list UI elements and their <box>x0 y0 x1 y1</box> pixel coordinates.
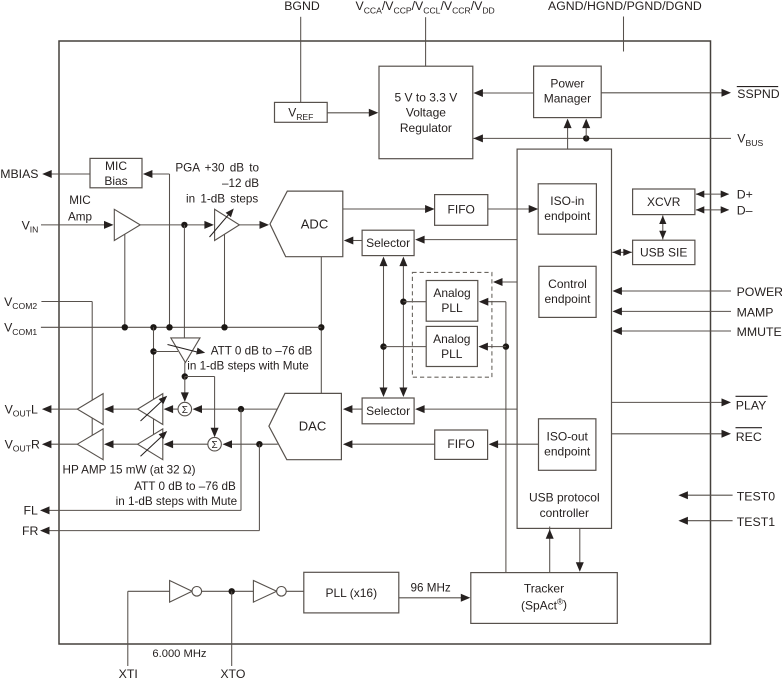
wire ATT bias branch <box>154 351 179 353</box>
wire FR <box>258 444 260 530</box>
block FIFO in <box>435 195 488 226</box>
wire MIC amp to PGA <box>140 224 206 226</box>
junction VCOM1 mic bias <box>166 324 172 330</box>
block MIC bias <box>90 158 142 187</box>
svg-text:ATT 0 dB to –76 dB: ATT 0 dB to –76 dB <box>211 344 313 357</box>
svg-text:Analog: Analog <box>433 286 470 300</box>
wire tracker clock vertical <box>505 302 507 573</box>
wire ATT amp L to HP amp L <box>113 408 138 410</box>
svg-text:ADC: ADC <box>301 217 328 232</box>
amplifier MIC amp <box>114 209 140 240</box>
wire ATT output <box>184 363 186 377</box>
svg-text:ATT 0 dB to –76 dB: ATT 0 dB to –76 dB <box>134 480 236 493</box>
wire sum L to ATT amp L <box>171 408 179 410</box>
converter DAC <box>269 393 342 459</box>
block selector upper <box>362 230 414 255</box>
svg-text:XCVR: XCVR <box>647 195 681 209</box>
wire link A to analog PLL lower <box>384 346 427 348</box>
wire selector link B <box>402 263 404 391</box>
amplifier PGA <box>215 209 240 240</box>
block analog PLL lower <box>426 326 477 366</box>
svg-text:controller: controller <box>540 506 589 520</box>
junction selector link A <box>380 343 386 349</box>
junction VCOM1 att bias <box>150 324 156 330</box>
svg-text:MIC: MIC <box>105 159 127 173</box>
svg-text:XTO: XTO <box>220 667 245 679</box>
svg-text:Selector: Selector <box>366 404 410 418</box>
wire AGND stub <box>623 17 625 52</box>
svg-text:in 1-dB steps with Mute: in 1-dB steps with Mute <box>187 360 308 373</box>
svg-text:5 V to 3.3 V: 5 V to 3.3 V <box>395 90 458 104</box>
attenuator ATT <box>171 338 200 363</box>
svg-text:Σ: Σ <box>212 440 218 451</box>
svg-text:PLL: PLL <box>441 347 463 361</box>
amplifier HP amp R <box>77 429 103 460</box>
wire MBIAS <box>50 173 90 175</box>
wire POWER <box>620 290 731 292</box>
svg-text:XTI: XTI <box>119 667 138 679</box>
wire PGA bias <box>224 230 226 327</box>
inverter 1 <box>170 581 193 603</box>
wire ATT amp R to HP amp R <box>113 443 138 445</box>
svg-text:FIFO: FIFO <box>448 202 475 216</box>
block XCVR <box>633 189 695 215</box>
junction VIN node <box>181 222 187 228</box>
wire selector link A <box>383 263 385 391</box>
wire VOUTL <box>49 408 78 410</box>
attenuator ATT amp R <box>138 429 163 460</box>
block USB SIE <box>633 240 695 264</box>
wire TEST1 <box>687 520 733 522</box>
svg-text:FIFO: FIFO <box>447 437 474 451</box>
wire BGND to VREF <box>300 17 302 103</box>
svg-text:USB SIE: USB SIE <box>640 246 687 260</box>
amplifier HP amp L <box>77 394 103 425</box>
wire power manager to regulator <box>481 92 534 94</box>
wire DAC out R <box>227 443 278 445</box>
wire REC <box>612 433 724 435</box>
wire FIFO to ISO-in endpoint <box>488 208 531 210</box>
svg-text:Analog: Analog <box>433 332 470 346</box>
wire ATT bias vertical <box>153 327 155 450</box>
wire XTI <box>128 590 170 592</box>
svg-text:Bias: Bias <box>104 174 127 188</box>
wire ADC to FIFO <box>343 208 427 210</box>
svg-text:ISO-out: ISO-out <box>547 429 589 443</box>
wire USB controller to tracker down <box>579 528 581 564</box>
wire XCVR to USB SIE <box>662 215 664 239</box>
wire clock to analog PLL lower <box>487 346 506 348</box>
svg-text:MIC: MIC <box>69 194 90 207</box>
block selector lower <box>362 398 414 424</box>
wire VBUS <box>473 137 731 139</box>
svg-text:endpoint: endpoint <box>544 292 591 306</box>
svg-text:BGND: BGND <box>284 0 320 13</box>
wire ISO-out to FIFO <box>496 443 539 445</box>
wire ATT to sum L <box>184 377 186 395</box>
block analog PLL upper <box>426 281 478 322</box>
svg-text:Selector: Selector <box>366 236 410 250</box>
svg-text:D+: D+ <box>737 188 753 202</box>
svg-text:Control: Control <box>548 277 587 291</box>
wire VREF to regulator <box>327 112 371 114</box>
summer L <box>178 402 192 416</box>
wire USB controller to selector lower <box>423 408 517 410</box>
svg-text:Voltage: Voltage <box>406 106 446 120</box>
svg-text:D–: D– <box>737 203 753 217</box>
junction VCOM1 mic amp <box>122 324 128 330</box>
wire VBUS to power manager <box>585 126 587 138</box>
svg-text:TEST0: TEST0 <box>737 489 775 503</box>
svg-text:AGND/HGND/PGND/DGND: AGND/HGND/PGND/DGND <box>548 0 702 13</box>
svg-text:ISO-in: ISO-in <box>550 194 584 208</box>
svg-text:PGA +30 dB to: PGA +30 dB to <box>175 162 259 175</box>
wire PGA to ADC <box>239 224 261 226</box>
wire sum R to ATT amp R <box>171 443 208 445</box>
svg-text:TEST1: TEST1 <box>737 515 775 529</box>
wire VOUTR <box>49 443 78 445</box>
converter ADC <box>270 191 343 257</box>
svg-text:FL: FL <box>24 504 39 518</box>
svg-text:endpoint: endpoint <box>544 444 591 458</box>
svg-text:PLL: PLL <box>441 301 463 315</box>
wire FL <box>240 409 242 510</box>
svg-text:REC: REC <box>736 430 762 444</box>
svg-text:SSPND: SSPND <box>737 87 779 101</box>
inverter 2 <box>253 581 276 603</box>
svg-text:Amp: Amp <box>68 211 93 224</box>
wire PLAY <box>612 401 724 403</box>
svg-text:MBIAS: MBIAS <box>0 167 38 181</box>
junction selector link B <box>400 299 406 305</box>
junction ATT bias branch <box>150 348 156 354</box>
block VREF <box>275 102 328 122</box>
block power manager <box>534 66 602 118</box>
svg-text:MAMP: MAMP <box>737 305 774 319</box>
wire inverter to PLL <box>286 590 304 592</box>
svg-text:Tracker: Tracker <box>524 581 564 595</box>
svg-text:MMUTE: MMUTE <box>737 325 782 339</box>
wire VCC to regulator <box>425 17 427 66</box>
wire VIN node to ATT <box>183 225 185 338</box>
block voltage regulator <box>379 66 473 159</box>
svg-text:Regulator: Regulator <box>400 121 452 135</box>
wire USB controller to PLL group <box>501 281 518 283</box>
dashed analog PLL group <box>412 272 492 377</box>
svg-text:PLAY: PLAY <box>736 399 767 413</box>
svg-text:in 1-dB steps with Mute: in 1-dB steps with Mute <box>116 495 237 508</box>
wire ADC bias link <box>320 257 322 394</box>
block ISO-in endpoint <box>538 184 596 234</box>
wire TEST0 <box>687 494 733 496</box>
junction VCOM1 end <box>318 324 324 330</box>
wire MMUTE <box>620 330 731 332</box>
svg-text:–12 dB: –12 dB <box>222 177 259 190</box>
svg-text:96 MHz: 96 MHz <box>411 582 451 595</box>
wire MIC amp bias <box>124 228 126 327</box>
junction DAC out L <box>238 406 244 412</box>
svg-text:DAC: DAC <box>299 419 326 434</box>
wire D+ <box>696 193 729 195</box>
wire USB SIE to USB controller <box>612 251 632 253</box>
block ISO-out endpoint <box>539 419 596 471</box>
wire inverter link <box>201 590 253 592</box>
svg-text:FR: FR <box>22 524 39 538</box>
junction VBUS <box>583 135 589 141</box>
block PLL x16 <box>304 572 399 613</box>
wire VIN <box>41 224 106 226</box>
summer R <box>208 437 222 451</box>
svg-text:endpoint: endpoint <box>544 209 591 223</box>
outer chip boundary <box>59 41 711 644</box>
attenuator ATT amp L <box>138 394 163 425</box>
block FIFO out <box>435 430 488 459</box>
junction clock branch <box>503 343 509 349</box>
block tracker <box>471 573 618 624</box>
wire PLL to tracker <box>399 597 463 599</box>
wire selector to DAC <box>351 408 363 410</box>
svg-text:6.000 MHz: 6.000 MHz <box>152 648 207 660</box>
svg-text:Σ: Σ <box>182 405 188 416</box>
junction ATT output <box>182 373 188 379</box>
junction DAC out R <box>256 441 262 447</box>
wire FIFO out to DAC <box>350 443 435 445</box>
wire SSPND <box>601 92 723 94</box>
junction XTO <box>229 588 235 594</box>
wire VCOM1 <box>41 326 321 328</box>
svg-text:Manager: Manager <box>544 92 591 106</box>
wire selector to ADC <box>352 240 363 242</box>
svg-text:Power: Power <box>550 77 584 91</box>
wire USB controller to tracker up <box>549 527 551 573</box>
wire D- <box>696 209 729 211</box>
wire clock to analog PLL upper <box>487 301 506 303</box>
block control endpoint <box>539 266 596 317</box>
wire VCOM2 <box>41 301 92 303</box>
wire USB controller to power manager <box>567 126 569 149</box>
svg-text:in 1-dB steps: in 1-dB steps <box>186 192 258 205</box>
wire USB controller to selector upper <box>423 239 517 241</box>
svg-text:USB protocol: USB protocol <box>529 491 600 505</box>
junction VCOM1 pga <box>221 324 227 330</box>
wire XTO <box>231 591 233 666</box>
wire ATT to sum R <box>185 376 215 378</box>
svg-text:HP AMP 15 mW (at 32 Ω): HP AMP 15 mW (at 32 Ω) <box>63 464 196 477</box>
svg-text:POWER: POWER <box>737 285 782 299</box>
wire MAMP <box>620 310 731 312</box>
wire MIC bias feed <box>151 173 170 175</box>
wire DAC out L <box>197 408 278 410</box>
wire link B to analog PLL upper <box>403 301 426 303</box>
svg-text:PLL (x16): PLL (x16) <box>326 586 378 600</box>
block USB protocol controller <box>517 149 611 528</box>
